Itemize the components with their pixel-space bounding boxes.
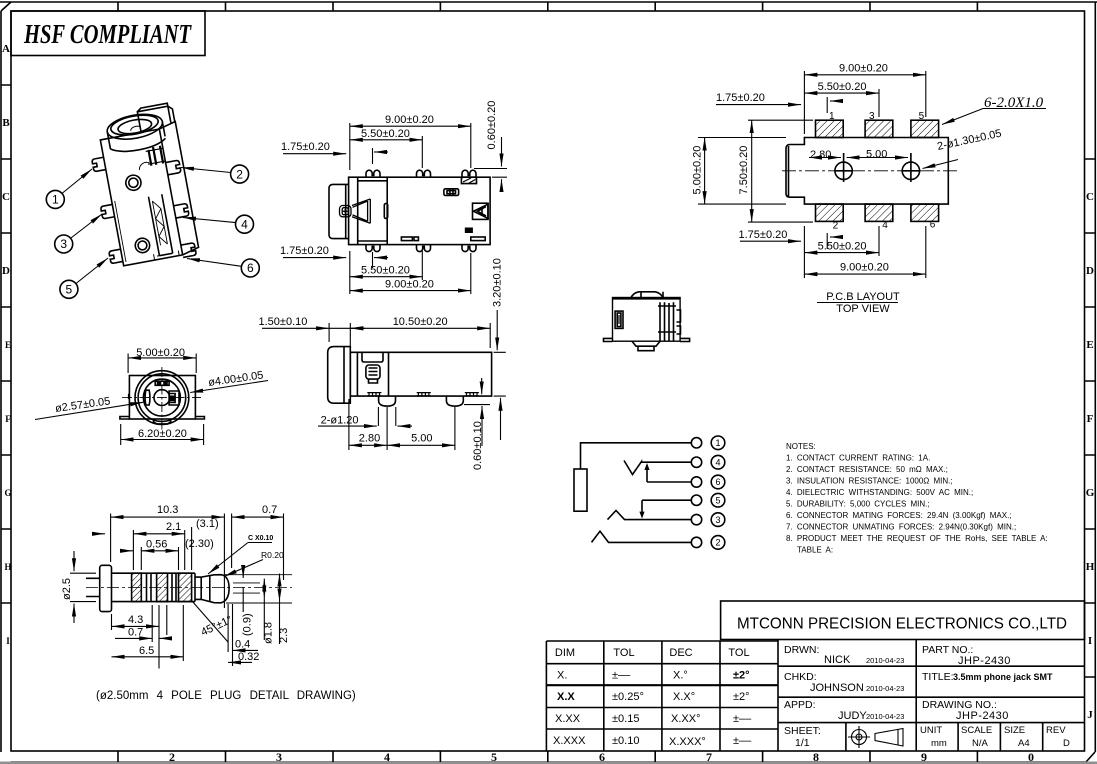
svg-text:5.00: 5.00 <box>411 433 432 445</box>
svg-text:3: 3 <box>276 750 282 764</box>
svg-text:5.50±0.20: 5.50±0.20 <box>818 81 867 93</box>
svg-text:2: 2 <box>833 221 839 232</box>
svg-text:0.56: 0.56 <box>146 539 167 551</box>
svg-text:6: 6 <box>930 220 936 231</box>
svg-text:5: 5 <box>919 111 925 122</box>
svg-text:X.X: X.X <box>557 691 575 703</box>
svg-text:D: D <box>1063 738 1070 749</box>
svg-text:6-2.0X1.0: 6-2.0X1.0 <box>984 95 1044 111</box>
svg-text:I: I <box>1088 635 1092 647</box>
svg-text:6.20±0.20: 6.20±0.20 <box>138 428 187 440</box>
svg-text:ø2.5: ø2.5 <box>61 578 73 600</box>
svg-text:TITLE:: TITLE: <box>922 671 954 683</box>
svg-text:3.5mm phone jack SMT: 3.5mm phone jack SMT <box>953 672 1053 682</box>
svg-text:JUDY: JUDY <box>838 710 867 722</box>
svg-text:TOL: TOL <box>613 647 634 659</box>
svg-text:E: E <box>5 340 11 350</box>
svg-text:3: 3 <box>715 515 720 525</box>
svg-text:F: F <box>5 414 11 424</box>
svg-text:3: 3 <box>869 111 875 122</box>
svg-text:1.75±0.20: 1.75±0.20 <box>281 141 330 153</box>
svg-text:5.00±0.20: 5.00±0.20 <box>136 347 185 359</box>
svg-text:±2°: ±2° <box>733 670 750 682</box>
svg-text:5. DURABILITY: 5,000 CYCLES MI: 5. DURABILITY: 5,000 CYCLES MIN.; <box>786 500 930 509</box>
svg-text:DEC: DEC <box>669 647 692 659</box>
svg-text:R0.20: R0.20 <box>261 550 284 560</box>
svg-text:D: D <box>2 265 10 277</box>
svg-text:REV: REV <box>1046 725 1066 736</box>
svg-text:0: 0 <box>1028 750 1034 764</box>
svg-text:1/1: 1/1 <box>795 737 810 749</box>
svg-text:9.00±0.20: 9.00±0.20 <box>840 262 889 274</box>
svg-text:E: E <box>1086 339 1093 351</box>
svg-text:J: J <box>1087 709 1093 721</box>
svg-text:0.60±0.20: 0.60±0.20 <box>486 101 498 150</box>
svg-text:0.60±0.10: 0.60±0.10 <box>472 421 484 470</box>
svg-text:±‒‒: ±‒‒ <box>733 735 752 747</box>
svg-text:SIZE: SIZE <box>1004 725 1025 736</box>
svg-text:D: D <box>1086 265 1094 277</box>
svg-text:2.3: 2.3 <box>278 628 290 643</box>
svg-text:6.5: 6.5 <box>139 645 154 657</box>
svg-text:1.75±0.20: 1.75±0.20 <box>739 229 788 241</box>
svg-text:5.50±0.20: 5.50±0.20 <box>818 241 867 253</box>
svg-text:A4: A4 <box>1018 738 1030 749</box>
svg-text:4: 4 <box>882 220 888 231</box>
svg-text:1.75±0.20: 1.75±0.20 <box>280 245 329 257</box>
svg-text:9.00±0.20: 9.00±0.20 <box>385 279 434 291</box>
svg-text:2: 2 <box>715 538 720 548</box>
svg-text:9.00±0.20: 9.00±0.20 <box>385 114 434 126</box>
svg-text:5.50±0.20: 5.50±0.20 <box>361 128 410 140</box>
svg-text:2010-04-23: 2010-04-23 <box>866 684 904 693</box>
svg-text:NOTES:: NOTES: <box>786 442 816 451</box>
svg-text:9: 9 <box>921 750 927 764</box>
svg-text:2.80: 2.80 <box>810 149 831 161</box>
svg-text:6. CONNECTOR MATING FORCES: 29: 6. CONNECTOR MATING FORCES: 29.4N (3.00K… <box>786 511 1012 520</box>
svg-text:P.C.B LAYOUT: P.C.B LAYOUT <box>826 291 900 303</box>
svg-text:(3.1): (3.1) <box>196 518 219 530</box>
svg-text:C X0.10: C X0.10 <box>248 535 273 542</box>
svg-text:DRWN:: DRWN: <box>784 644 819 656</box>
svg-text:X.XXX°: X.XXX° <box>669 736 706 748</box>
svg-text:2010-04-23: 2010-04-23 <box>866 712 904 721</box>
svg-text:6: 6 <box>715 477 720 487</box>
svg-text:G: G <box>4 488 11 498</box>
svg-text:0.7: 0.7 <box>262 504 277 516</box>
svg-text:5.50±0.20: 5.50±0.20 <box>361 265 410 277</box>
svg-text:1: 1 <box>829 111 835 122</box>
svg-text:4: 4 <box>384 750 390 764</box>
svg-text:B: B <box>2 117 10 129</box>
svg-text:H: H <box>4 562 11 572</box>
svg-text:10.50±0.20: 10.50±0.20 <box>393 316 448 328</box>
svg-text:6: 6 <box>599 750 605 764</box>
svg-text:C: C <box>1086 191 1094 203</box>
svg-text:(2.30): (2.30) <box>185 538 214 550</box>
svg-text:2: 2 <box>236 167 243 181</box>
svg-text:5.00±0.20: 5.00±0.20 <box>692 146 704 195</box>
svg-text:X.XX: X.XX <box>555 713 581 725</box>
svg-text:A: A <box>2 43 10 55</box>
svg-text:2-ø1.20: 2-ø1.20 <box>321 415 359 427</box>
svg-text:8: 8 <box>813 750 819 764</box>
svg-text:X.: X. <box>557 670 567 682</box>
svg-text:(ø2.50mm 4 POLE PLUG DETAIL DR: (ø2.50mm 4 POLE PLUG DETAIL DRAWING) <box>96 690 356 702</box>
svg-text:JOHNSON: JOHNSON <box>810 682 864 694</box>
svg-text:7. CONNECTOR UNMATING FORCES:: 7. CONNECTOR UNMATING FORCES: 2.94N(0.30… <box>786 523 1016 532</box>
svg-text:4: 4 <box>715 457 720 467</box>
svg-text:ø1.8: ø1.8 <box>263 622 275 644</box>
svg-text:JHP-2430: JHP-2430 <box>956 710 1009 722</box>
svg-text:5: 5 <box>715 495 720 505</box>
svg-text:1.50±0.10: 1.50±0.10 <box>259 316 308 328</box>
svg-text:2010-04-23: 2010-04-23 <box>866 656 904 665</box>
svg-text:4. DIELECTRIC WITHSTANDING: 50: 4. DIELECTRIC WITHSTANDING: 500V AC MIN.… <box>786 488 973 497</box>
svg-text:NICK: NICK <box>824 654 851 666</box>
svg-text:±0.10: ±0.10 <box>612 735 639 747</box>
svg-text:9.00±0.20: 9.00±0.20 <box>839 63 888 75</box>
svg-text:I: I <box>6 636 10 646</box>
svg-text:5.00: 5.00 <box>866 149 887 161</box>
svg-text:SCALE: SCALE <box>961 725 992 736</box>
svg-text:±0.15: ±0.15 <box>612 713 639 725</box>
svg-text:2.80: 2.80 <box>359 433 380 445</box>
svg-text:MTCONN PRECISION ELECTRONICS C: MTCONN PRECISION ELECTRONICS CO.,LTD <box>737 616 1067 633</box>
svg-text:2: 2 <box>169 750 175 764</box>
svg-text:TOP VIEW: TOP VIEW <box>836 303 890 315</box>
svg-text:X.X°: X.X° <box>673 691 695 703</box>
svg-text:±‒‒: ±‒‒ <box>612 670 631 682</box>
svg-text:8. PRODUCT MEET THE REQUEST OF: 8. PRODUCT MEET THE REQUEST OF THE RoHs,… <box>786 534 1048 543</box>
svg-text:2. CONTACT RESISTANCE: 50 mΩ M: 2. CONTACT RESISTANCE: 50 mΩ MAX.; <box>786 465 948 474</box>
svg-text:X.°: X.° <box>673 670 688 682</box>
svg-text:G: G <box>1086 487 1095 499</box>
svg-text:H: H <box>1086 561 1095 573</box>
svg-text:5: 5 <box>491 750 497 764</box>
svg-text:3. INSULATION RESISTANCE: 1000: 3. INSULATION RESISTANCE: 1000Ω MIN.; <box>786 477 953 486</box>
svg-text:DIM: DIM <box>555 647 575 659</box>
svg-text:3.20±0.10: 3.20±0.10 <box>492 258 504 307</box>
svg-text:0.32: 0.32 <box>238 651 259 663</box>
svg-text:APPD:: APPD: <box>784 699 816 711</box>
svg-text:1. CONTACT CURRENT RATING: 1A.: 1. CONTACT CURRENT RATING: 1A. <box>786 454 930 463</box>
svg-text:X.XX°: X.XX° <box>671 713 700 725</box>
svg-text:4.3: 4.3 <box>128 614 143 626</box>
svg-text:1.75±0.20: 1.75±0.20 <box>716 92 765 104</box>
svg-text:mm: mm <box>931 738 947 749</box>
svg-text:TOL: TOL <box>728 647 749 659</box>
svg-text:HSF COMPLIANT: HSF COMPLIANT <box>23 19 192 49</box>
svg-text:7.50±0.20: 7.50±0.20 <box>738 146 750 195</box>
svg-text:C: C <box>2 191 10 203</box>
svg-text:5: 5 <box>66 283 73 297</box>
svg-text:6: 6 <box>247 261 254 275</box>
svg-text:2.1: 2.1 <box>166 521 181 533</box>
svg-text:1: 1 <box>52 193 59 207</box>
svg-text:±0.25°: ±0.25° <box>612 691 644 703</box>
svg-text:X.XXX: X.XXX <box>553 735 586 747</box>
svg-text:1: 1 <box>715 438 720 448</box>
svg-text:0.7: 0.7 <box>128 626 143 638</box>
svg-text:N/A: N/A <box>972 738 989 749</box>
svg-text:UNIT: UNIT <box>920 725 942 736</box>
svg-text:TABLE A:: TABLE A: <box>797 546 833 555</box>
svg-text:SHEET:: SHEET: <box>784 725 821 737</box>
svg-text:3: 3 <box>60 237 67 251</box>
svg-text:JHP-2430: JHP-2430 <box>958 655 1011 667</box>
svg-text:(0.9): (0.9) <box>242 613 254 636</box>
svg-text:10.3: 10.3 <box>157 504 178 516</box>
svg-text:7: 7 <box>706 750 712 764</box>
svg-text:±2°: ±2° <box>733 691 750 703</box>
svg-text:4: 4 <box>241 217 248 231</box>
svg-text:±‒‒: ±‒‒ <box>733 713 752 725</box>
svg-text:F: F <box>1087 413 1094 425</box>
svg-text:0.4: 0.4 <box>235 639 250 651</box>
